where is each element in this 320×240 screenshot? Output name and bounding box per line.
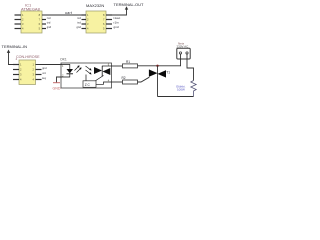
X1 right net labels bbox=[42, 67, 47, 80]
triac T1 bbox=[157, 66, 159, 97]
IC2 pin numbers bbox=[87, 13, 105, 31]
svg-text:100W: 100W bbox=[177, 88, 185, 92]
wire OK1 pin4 to resistor R2 bbox=[112, 81, 123, 83]
wire R1 to mains, with triac junction bbox=[138, 65, 182, 67]
mains connector X2 body bbox=[177, 48, 190, 59]
svg-text:CON-HIROSE: CON-HIROSE bbox=[16, 55, 40, 59]
OK1 photo receive arrows bbox=[86, 66, 91, 74]
X1 left pin stubs bbox=[13, 65, 19, 80]
IC2 left net labels bbox=[76, 16, 81, 29]
OK1 LED emission arrows bbox=[75, 67, 81, 73]
IC IC2 body bbox=[86, 11, 106, 33]
IC2 right net labels bbox=[114, 16, 121, 29]
wire from IC2 pin to TERMINAL-OUT bbox=[112, 8, 127, 15]
wire from TERMINAL-IN arrow to connector X1 bbox=[9, 52, 14, 65]
OK1 pin numbers bbox=[62, 63, 110, 83]
terminal-out arrow head bbox=[125, 6, 128, 9]
wire R2 to triac gate bbox=[138, 77, 150, 82]
junction dot at triac MT2 bbox=[156, 65, 158, 67]
svg-text:R2: R2 bbox=[122, 76, 126, 80]
lamp load zigzag bbox=[191, 81, 196, 97]
bottom return wire triac to lamp bbox=[158, 96, 194, 98]
svg-text:r1in: r1in bbox=[114, 20, 119, 24]
svg-text:gnd: gnd bbox=[47, 25, 52, 29]
svg-text:rxd: rxd bbox=[77, 16, 81, 20]
wire OK1 cathode to GND bbox=[57, 77, 62, 83]
IC1 right pin stubs bbox=[42, 20, 46, 29]
OK1 internal wiring bbox=[86, 66, 112, 84]
svg-text:rxd: rxd bbox=[47, 16, 51, 20]
IC1 pin numbers bbox=[22, 13, 41, 31]
svg-text:gnd: gnd bbox=[42, 67, 47, 70]
OK1 internal LED bbox=[61, 65, 70, 78]
svg-text:TERMINAL-IN: TERMINAL-IN bbox=[2, 44, 28, 49]
X1 pin numbers bbox=[20, 63, 35, 82]
wire net uart from IC1 to IC2 bbox=[42, 14, 86, 16]
svg-text:R1: R1 bbox=[126, 60, 130, 64]
ground symbol GND bbox=[53, 82, 60, 84]
svg-text:gnd: gnd bbox=[114, 25, 119, 29]
OK1 ZC box bbox=[83, 81, 96, 88]
IC1 right net labels bbox=[47, 16, 52, 29]
wire X1 pin1 to optocoupler anode bbox=[36, 64, 62, 66]
wire OK1 pin6 to resistor R1 bbox=[112, 65, 123, 67]
OK1 internal triac triangles bbox=[94, 67, 102, 74]
svg-text:txd: txd bbox=[77, 20, 81, 24]
terminal-in arrow head bbox=[7, 50, 10, 53]
svg-text:gnd: gnd bbox=[76, 25, 81, 29]
svg-text:t1out: t1out bbox=[114, 16, 121, 20]
mains pin 2 bbox=[186, 52, 188, 54]
IC1 left pin stubs bbox=[15, 15, 22, 29]
svg-text:ZC: ZC bbox=[85, 83, 91, 87]
svg-text:T1: T1 bbox=[166, 71, 170, 75]
svg-text:GND: GND bbox=[53, 87, 61, 91]
X1 right pin stubs bbox=[36, 70, 42, 80]
IC2 left pin stubs bbox=[82, 15, 87, 29]
svg-text:OK1: OK1 bbox=[60, 57, 67, 61]
svg-text:MAX232N: MAX232N bbox=[86, 3, 104, 8]
IC2 right pin stubs bbox=[106, 15, 112, 29]
optocoupler OK1 body bbox=[61, 63, 112, 88]
mains pin 1 bbox=[179, 52, 181, 54]
svg-text:txd: txd bbox=[47, 20, 51, 24]
resistor R2 bbox=[123, 80, 138, 84]
IC IC1 body bbox=[21, 11, 42, 33]
resistor R1 bbox=[123, 64, 138, 68]
svg-text:TERMINAL-OUT: TERMINAL-OUT bbox=[114, 2, 145, 7]
connector X1 body bbox=[19, 60, 36, 85]
svg-text:uart: uart bbox=[65, 11, 72, 15]
